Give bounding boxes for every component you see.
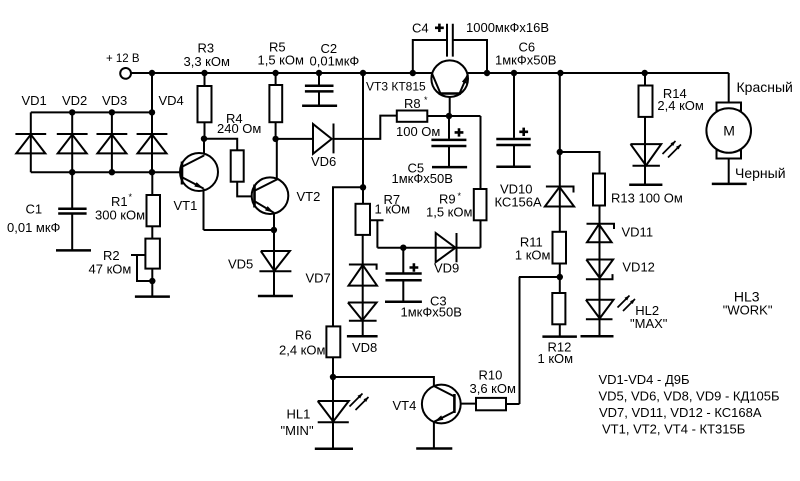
svg-text:VD5, VD6, VD8, VD9 - КД105Б: VD5, VD6, VD8, VD9 - КД105Б <box>599 389 780 404</box>
svg-text:VD1: VD1 <box>22 93 47 108</box>
svg-text:300 кОм: 300 кОм <box>95 208 145 223</box>
svg-text:3,3 кОм: 3,3 кОм <box>184 54 230 69</box>
svg-text:КС156А: КС156А <box>495 195 543 210</box>
svg-text:VD11: VD11 <box>622 225 654 240</box>
svg-text:240 Ом: 240 Ом <box>217 121 261 136</box>
svg-text:"WORK": "WORK" <box>723 302 773 317</box>
svg-text:1мкФх50В: 1мкФх50В <box>495 53 556 68</box>
svg-text:VD7: VD7 <box>306 271 331 286</box>
svg-text:HL1: HL1 <box>287 407 311 422</box>
svg-text:100 Ом: 100 Ом <box>396 124 440 139</box>
svg-text:VD1-VD4 - Д9Б: VD1-VD4 - Д9Б <box>599 372 690 387</box>
svg-text:1мкФх50В: 1мкФх50В <box>401 305 462 320</box>
svg-text:C1: C1 <box>26 202 43 217</box>
svg-text:1,5 кОм: 1,5 кОм <box>258 53 304 68</box>
svg-text:R13 100 Ом: R13 100 Ом <box>611 191 683 206</box>
svg-text:C4: C4 <box>412 21 429 36</box>
svg-text:"MAX": "MAX" <box>630 316 668 331</box>
svg-text:0,01 мкФ: 0,01 мкФ <box>7 220 61 235</box>
svg-text:VD2: VD2 <box>62 93 87 108</box>
svg-text:1 кОм: 1 кОм <box>375 202 411 217</box>
svg-text:VT1: VT1 <box>174 198 198 213</box>
svg-text:VT1, VT2, VT4 - КТ315Б: VT1, VT2, VT4 - КТ315Б <box>602 422 745 437</box>
svg-text:*: * <box>424 95 428 105</box>
svg-text:0,01мкФ: 0,01мкФ <box>310 54 360 69</box>
svg-text:R6: R6 <box>295 328 312 343</box>
svg-text:1000мкФх16В: 1000мкФх16В <box>466 20 549 35</box>
svg-text:Красный: Красный <box>737 79 793 95</box>
svg-text:VD6: VD6 <box>311 154 336 169</box>
svg-text:"MIN": "MIN" <box>281 423 314 438</box>
svg-text:VD4: VD4 <box>159 93 184 108</box>
svg-text:*: * <box>129 192 133 202</box>
svg-text:VD3: VD3 <box>102 93 127 108</box>
svg-text:+ 12 В: + 12 В <box>106 53 140 65</box>
svg-text:R8: R8 <box>404 96 421 111</box>
svg-text:1 кОм: 1 кОм <box>515 248 551 263</box>
svg-text:VD8: VD8 <box>352 340 377 355</box>
svg-text:VT2: VT2 <box>297 189 321 204</box>
svg-text:1,5 кОм: 1,5 кОм <box>426 205 472 220</box>
svg-text:Черный: Черный <box>735 165 786 181</box>
svg-text:1мкФх50В: 1мкФх50В <box>392 171 453 186</box>
svg-text:2,4 кОм: 2,4 кОм <box>657 98 703 113</box>
svg-text:47 кОм: 47 кОм <box>89 262 132 277</box>
svg-text:3,6 кОм: 3,6 кОм <box>470 381 516 396</box>
svg-text:*: * <box>458 191 462 201</box>
svg-text:VT4: VT4 <box>393 398 417 413</box>
svg-text:VD7, VD11, VD12 - КС168А: VD7, VD11, VD12 - КС168А <box>599 405 762 420</box>
svg-text:1 кОм: 1 кОм <box>538 351 574 366</box>
svg-text:VD9: VD9 <box>434 261 459 276</box>
svg-text:VD5: VD5 <box>228 257 253 272</box>
svg-text:VD12: VD12 <box>622 260 655 275</box>
svg-text:VT3 КТ815: VT3 КТ815 <box>366 80 426 94</box>
svg-text:М: М <box>723 123 735 139</box>
svg-text:2,4 кОм: 2,4 кОм <box>279 343 325 358</box>
